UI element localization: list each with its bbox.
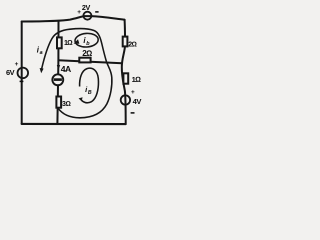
svg-text:1Ω: 1Ω	[132, 75, 142, 84]
svg-text:2Ω: 2Ω	[128, 41, 136, 48]
svg-text:+: +	[15, 61, 19, 68]
svg-text:4V: 4V	[133, 97, 143, 106]
svg-text:3Ω: 3Ω	[62, 101, 71, 108]
svg-text:+: +	[131, 89, 135, 96]
svg-text:2Ω: 2Ω	[82, 49, 92, 58]
svg-text:B: B	[88, 90, 92, 96]
svg-text:1Ω: 1Ω	[64, 38, 72, 47]
svg-text:2V: 2V	[82, 3, 91, 12]
svg-text:a: a	[40, 50, 43, 56]
svg-text:6V: 6V	[6, 68, 15, 77]
svg-text:4A: 4A	[61, 64, 71, 74]
svg-text:+: +	[77, 9, 81, 16]
